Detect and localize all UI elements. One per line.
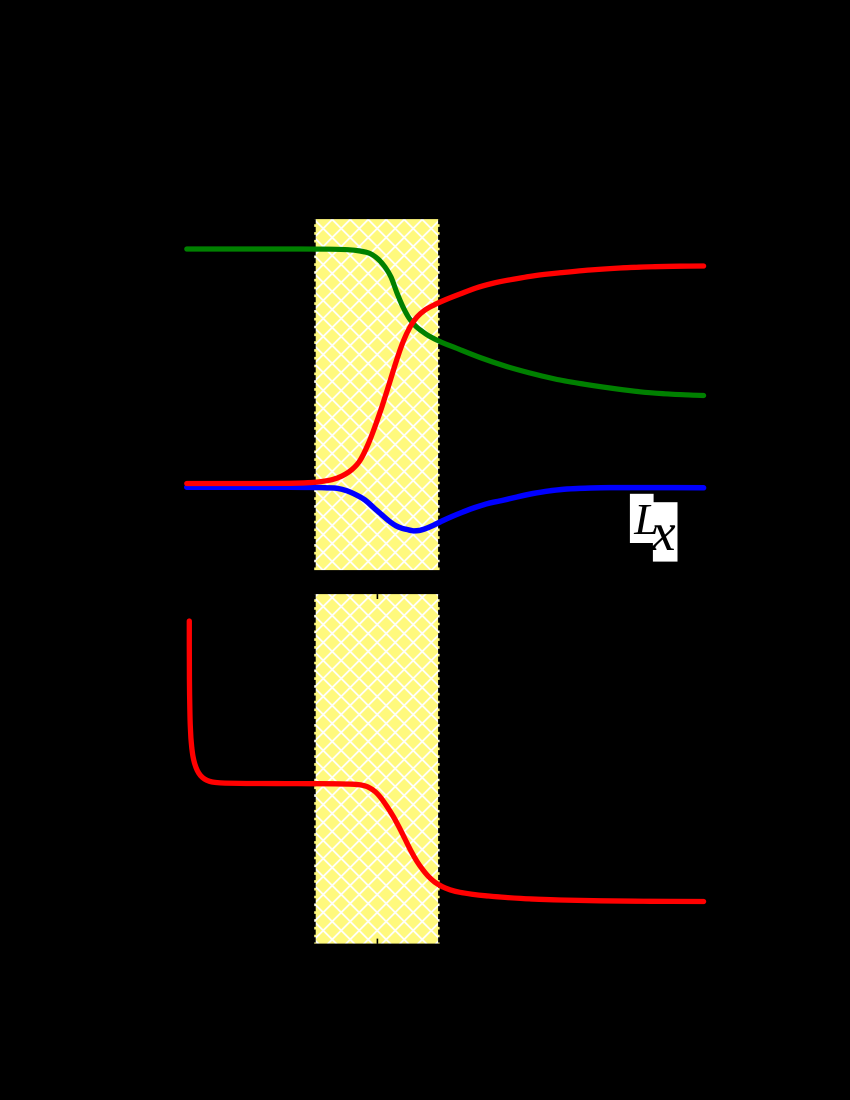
axis tick top of bottom panel [376, 594, 378, 599]
green curve top panel [187, 249, 704, 396]
wall region top panel (hatched) [314, 219, 439, 570]
dashed borders bottom rect [315, 594, 440, 944]
blue curve top panel [187, 487, 704, 531]
red curve top panel [187, 266, 704, 484]
svg-text:x: x [651, 502, 676, 562]
wall region bottom panel (hatched) [314, 594, 439, 944]
red curve bottom panel [189, 621, 703, 902]
axis tick bottom of bottom panel [376, 939, 378, 944]
label Lx white boxes [630, 494, 654, 543]
dashed borders top rect [315, 219, 440, 570]
